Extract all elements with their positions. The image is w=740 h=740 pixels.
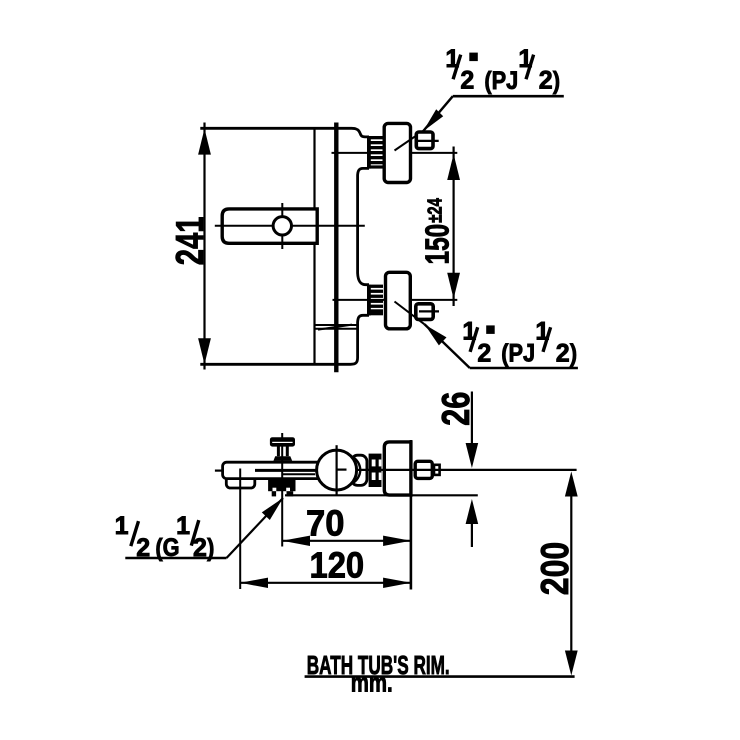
text label G — [115, 512, 215, 562]
svg-text:150: 150 — [420, 224, 456, 265]
locknut lower — [272, 491, 276, 496]
svg-text:mm.: mm. — [351, 668, 393, 697]
dim 241 line — [203, 123, 205, 370]
bottom nut mid line — [419, 310, 439, 312]
dim 26 top shaft and arrow — [471, 392, 473, 446]
leader underline top — [453, 95, 564, 98]
nut right tab — [434, 465, 440, 475]
main centerline bottom figure — [358, 469, 577, 471]
leader underline bottom — [470, 367, 578, 370]
dim 200 bottom arrow — [565, 651, 578, 676]
diverter cap — [270, 437, 295, 446]
diverter knob circle — [273, 217, 291, 235]
svg-text:1: 1 — [115, 512, 129, 540]
svg-text:): ) — [553, 66, 560, 94]
top thread neck — [367, 136, 383, 169]
svg-text:±24: ±24 — [423, 198, 446, 223]
spout — [226, 470, 255, 488]
diverter axis vertical line — [281, 433, 283, 547]
body outline top and bottom with back edge — [200, 128, 369, 364]
dim 241 bottom arrow — [198, 338, 211, 364]
capsule behind circle — [352, 455, 367, 485]
wall thick line — [334, 123, 338, 373]
top nut — [416, 132, 433, 149]
bath tub rim line — [305, 675, 575, 678]
leader line bottom label — [425, 324, 470, 368]
svg-text:(PJ: (PJ — [484, 66, 518, 94]
bottom valve body — [386, 272, 411, 329]
circle horizontal dash — [338, 469, 347, 471]
top valve body — [384, 123, 410, 182]
crescent arc — [352, 457, 360, 484]
svg-text:(PJ: (PJ — [501, 339, 535, 367]
svg-text:241: 241 — [169, 216, 212, 265]
svg-text:26: 26 — [435, 392, 478, 426]
bar body — [223, 462, 353, 478]
svg-text:): ) — [207, 534, 214, 562]
dim 120 line — [240, 582, 411, 584]
handle — [222, 209, 317, 243]
dim 150 extension handled by centerlines; dim line 150 — [453, 147, 455, 307]
text label bottom PJ — [462, 318, 577, 368]
top nut mid line — [418, 140, 439, 142]
leader arrowhead top — [423, 109, 443, 131]
top valve centerline — [332, 152, 458, 154]
svg-text:70: 70 — [306, 504, 344, 544]
bar inner line 2 — [283, 473, 315, 475]
handle centerline horizontal — [215, 225, 365, 227]
circle vertical centerline — [336, 445, 338, 495]
svg-text:): ) — [570, 339, 577, 367]
extension line spout (120 left) — [239, 469, 241, 590]
centerline left stub — [215, 470, 223, 472]
text 150+-24 — [420, 198, 456, 265]
svg-text:2: 2 — [477, 339, 491, 367]
svg-text:2: 2 — [539, 67, 553, 95]
union joint double lines — [315, 325, 358, 330]
svg-text:200: 200 — [533, 542, 577, 595]
handle centerline vertical — [281, 203, 283, 249]
dim 241 top arrow — [198, 129, 211, 155]
bottom nut — [416, 304, 433, 320]
dim 70 line — [282, 540, 411, 542]
deck line — [285, 494, 478, 496]
bottom valve centerline — [333, 299, 458, 301]
dim 150 bottom arrow — [447, 273, 460, 299]
bar inner line thick — [255, 469, 316, 472]
leader line top label — [424, 96, 453, 130]
svg-text:1: 1 — [176, 512, 190, 540]
locknut upper — [268, 480, 295, 491]
svg-text:2: 2 — [136, 534, 150, 562]
svg-text:2: 2 — [193, 534, 207, 562]
dim 200 line — [570, 478, 572, 668]
leader G label — [227, 498, 284, 558]
diverter foot — [273, 456, 292, 461]
dim 200 top arrow — [565, 472, 578, 497]
diverter stem — [277, 446, 280, 456]
thread block bottom figure — [369, 454, 382, 487]
leader arrowhead bottom — [425, 325, 447, 346]
valve nut bottom figure — [415, 461, 432, 478]
extension line valve right (70/120 right) — [410, 440, 413, 590]
dim 150 top arrow — [447, 154, 460, 180]
svg-text:2: 2 — [556, 339, 570, 367]
bottom thread neck — [367, 285, 383, 316]
main circle — [317, 450, 357, 490]
leader continuation inside top valve — [395, 131, 424, 151]
svg-text:120: 120 — [310, 546, 365, 586]
valve body bottom figure — [384, 442, 411, 495]
dim 26 bottom arrow — [466, 499, 479, 524]
svg-text:2: 2 — [460, 67, 474, 95]
leader continuation inside bottom valve — [395, 302, 425, 325]
text label top PJ — [445, 45, 560, 95]
body front vertical line — [313, 128, 315, 364]
